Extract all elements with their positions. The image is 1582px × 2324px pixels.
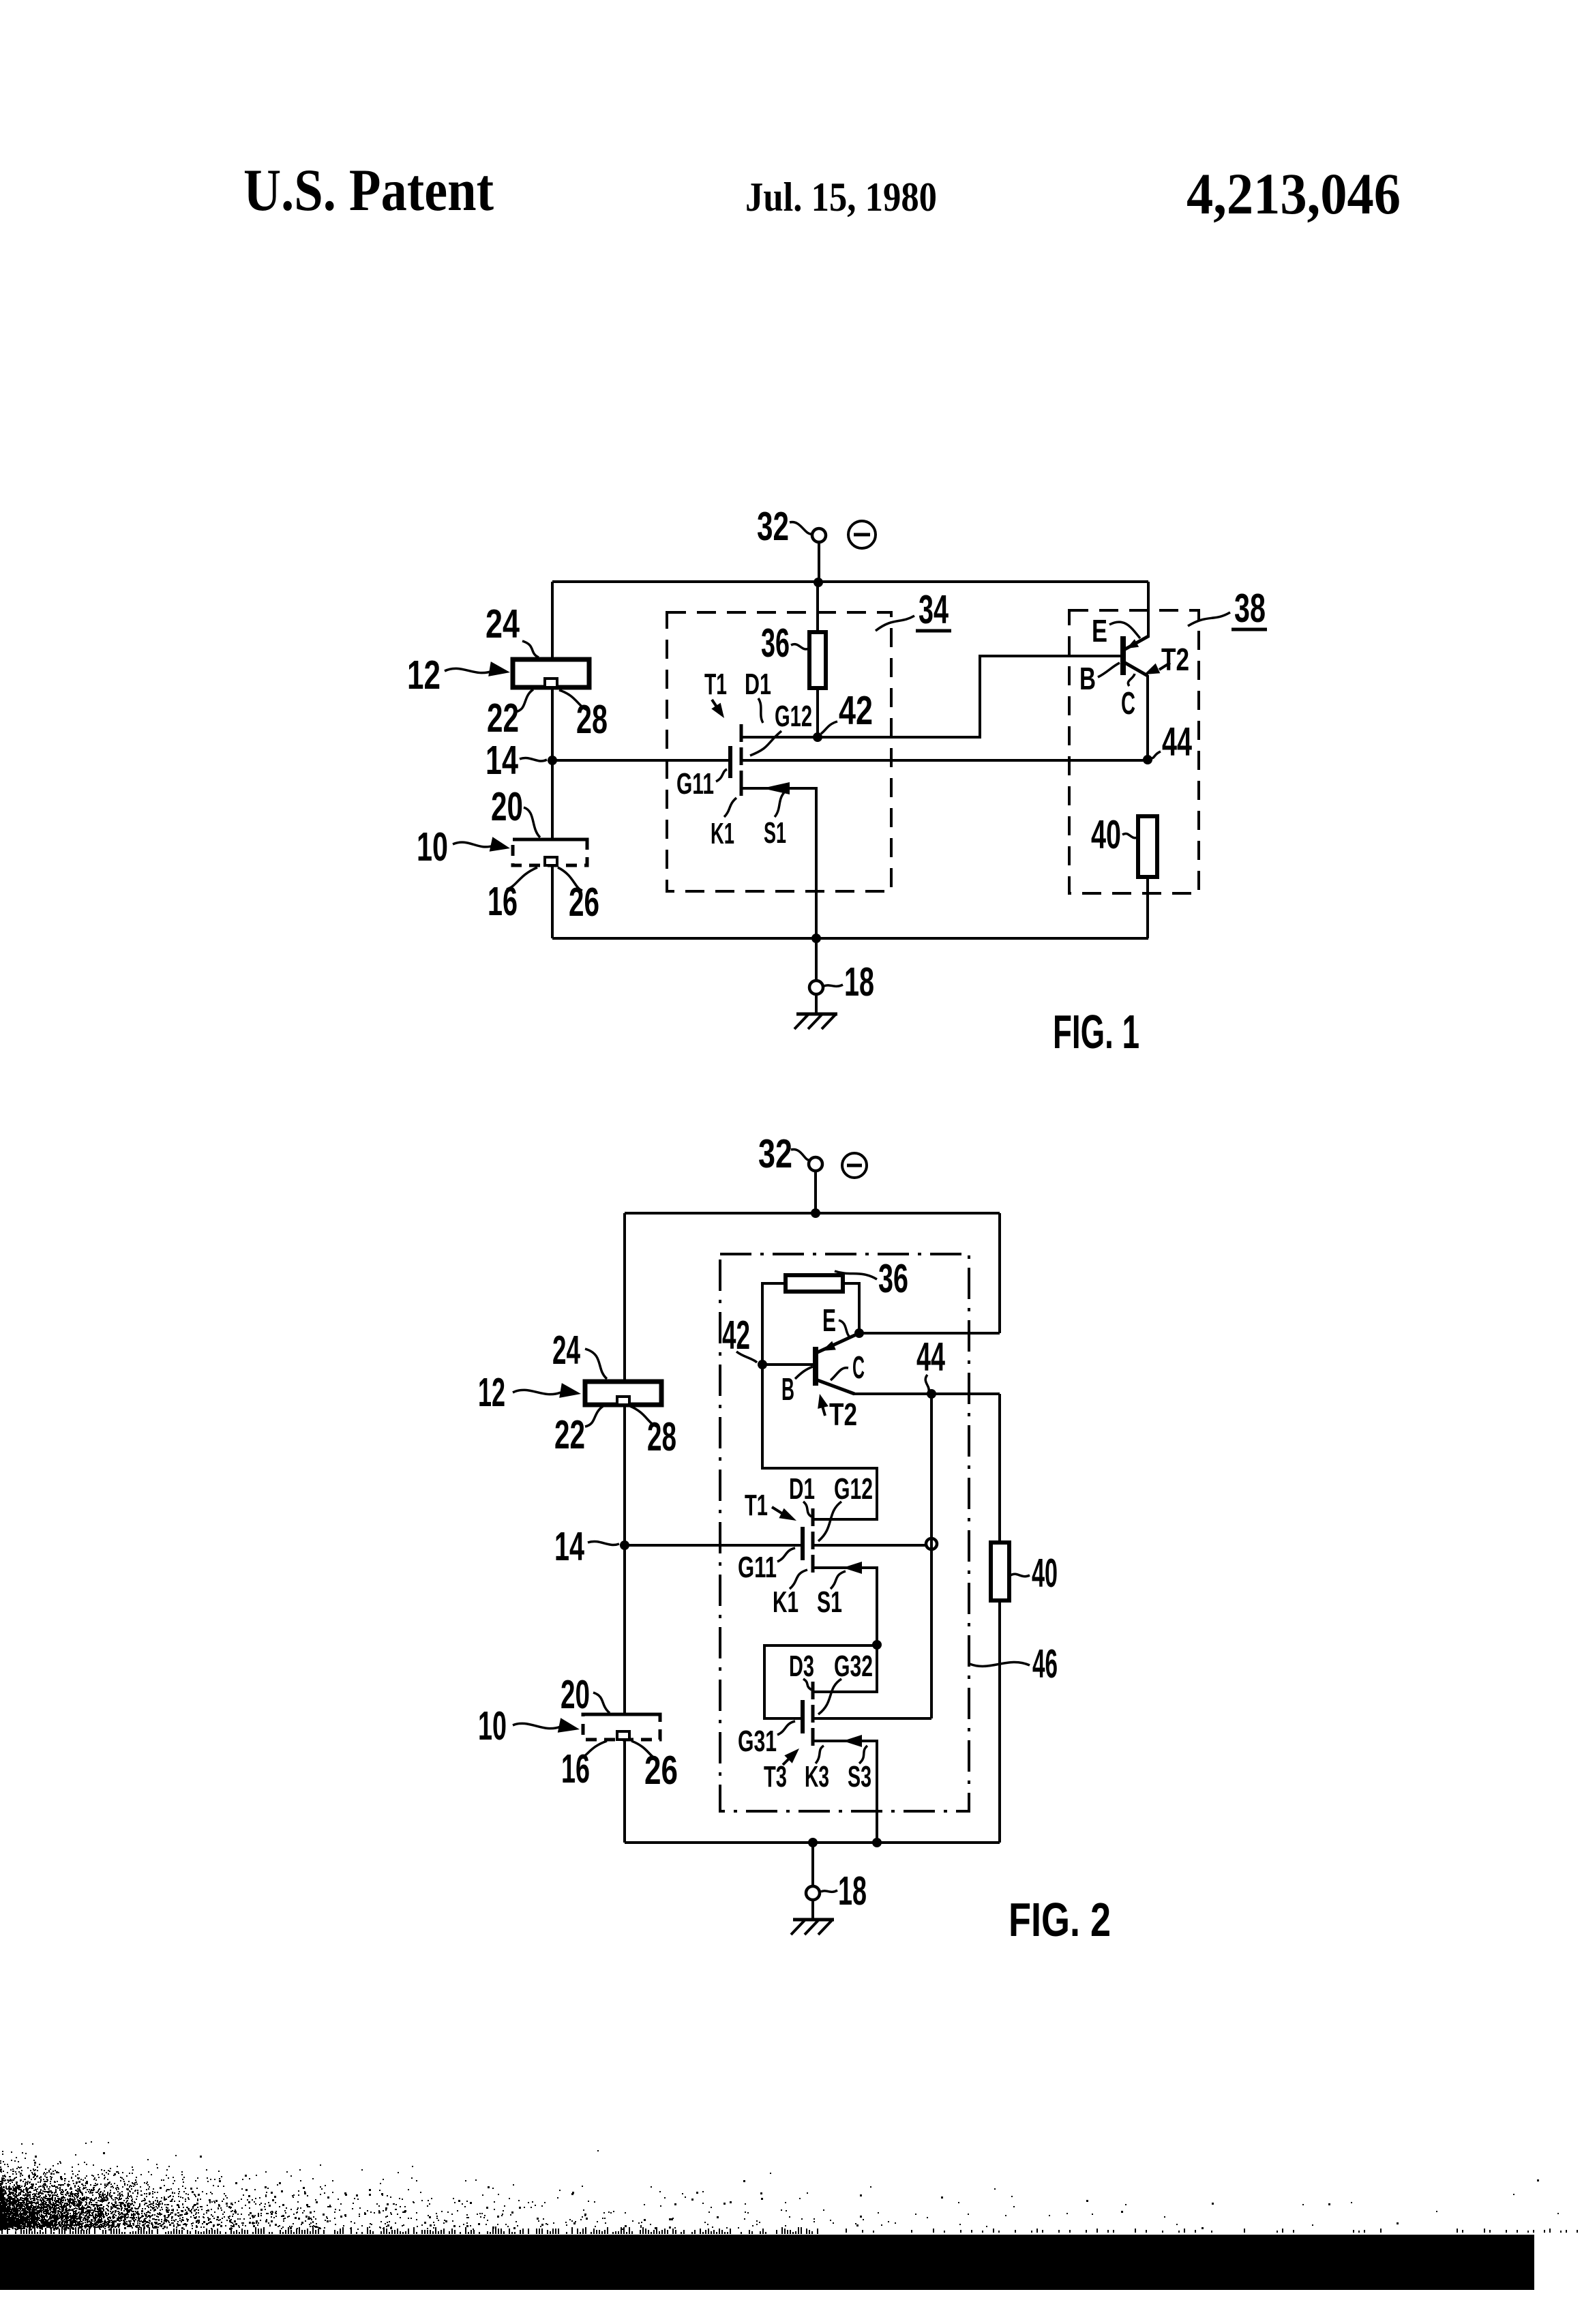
FIG.2 T3 pointer arrow [783,1758,790,1765]
FIG.2 wire 14 [625,1544,801,1547]
FIG.2 transistor T3 gate bar G31 [801,1700,805,1733]
FIG.1 ground symbol [815,994,818,1014]
FIG.1 lead-line for G12 [750,731,781,756]
FIG.1 T1 channel segment D-side [740,724,743,742]
FIG.2 lead-line for S1 [831,1571,846,1589]
FIG.1 T2 emitter arrow [1126,639,1139,649]
svg-text:24: 24 [486,601,520,646]
FIG.2 wire: node 44 down to G32 wire [930,1394,933,1718]
FIG.2 lead-line for B [795,1367,813,1379]
FIG.2 lead-line for 16 [578,1741,607,1759]
svg-text:18: 18 [844,959,874,1004]
svg-text:40: 40 [1032,1551,1058,1596]
FIG.2 lead-line for 42 [736,1352,757,1362]
FIG.2 T1 channel segment D-side [811,1508,815,1526]
FIG.1 lead-line for C [1128,674,1135,686]
FIG.1 wire: right edge upper segment to emitter [1147,582,1150,638]
FIG.2 wire: resistor 40 to bottom rail [998,1600,1001,1843]
FIG.2 wire: resistor 36 right lead to emitter node [843,1283,859,1333]
FIG.2 lead-line for C [831,1368,848,1380]
FIG.2 lead-line for 18 [821,1890,837,1892]
FIG.2 T2 emitter lead [818,1333,859,1352]
svg-text:20: 20 [561,1672,590,1717]
FIG.1 lead-line for 16 [507,867,537,889]
FIG.2 wire: outer left edge [623,1213,626,1843]
svg-text:24: 24 [552,1328,580,1373]
FIG.1 lead-line for 38 [1188,612,1230,626]
FIG.1 T1 pointer arrow [712,700,720,712]
svg-text:40: 40 [1091,812,1121,857]
svg-text:4,213,046: 4,213,046 [1186,161,1401,226]
FIG.2 lead-line for 46 [970,1662,1030,1666]
svg-text:T1: T1 [745,1489,768,1522]
FIG.2 S1 substrate arrow [843,1562,862,1574]
FIG.1 lead-line for 28 [559,690,589,711]
svg-text:12: 12 [407,653,441,698]
FIG.1 pointer arrow 12 [445,668,492,672]
svg-text:Jul. 15, 1980: Jul. 15, 1980 [745,175,937,220]
FIG.2 pointer arrow 10 [513,1723,561,1728]
FIG.2 photocell 12 box [585,1382,661,1405]
svg-text:K1: K1 [711,817,734,850]
FIG.1 lead-line for 42 [821,721,837,734]
FIG.2 wire: outer bottom edge [625,1841,1000,1844]
FIG.2 wire: G12 to vertical [814,1544,931,1547]
svg-text:44: 44 [1162,719,1192,764]
FIG.2 node dot bottom rail right [872,1838,882,1847]
FIG.1 T2 emitter lead [1125,636,1148,649]
FIG.2 T1 channel segment S-side [811,1555,815,1573]
FIG.1 dashed box 38 [1069,610,1199,893]
FIG.2 lead-line for 20 [593,1693,610,1713]
svg-text:14: 14 [486,738,518,783]
svg-text:42: 42 [839,688,873,733]
FIG.2 T1 channel segment middle [811,1532,815,1549]
FIG.1 T2 base wire [980,655,1120,657]
FIG.2 resistor 40 [991,1543,1009,1600]
FIG.2 T2 base wire [762,1363,813,1366]
svg-text:26: 26 [569,880,599,925]
FIG.1 node dot bottom rail [811,934,821,943]
FIG.2 T3 channel segment S-side [811,1728,815,1746]
FIG.2 lead-line for 26 [631,1741,657,1759]
svg-text:36: 36 [878,1256,908,1301]
FIG.1 lead-line for K1 [724,798,736,817]
svg-text:44: 44 [916,1335,945,1380]
FIG.1 dashed box 34 [667,612,891,891]
FIG.1 lead-line for 14 [520,758,547,761]
FIG.1 minus supply symbol [848,521,876,548]
FIG.2 terminal 32 circle [809,1157,822,1171]
FIG.1 lead-line for G11 [716,769,727,781]
svg-text:28: 28 [647,1414,676,1459]
svg-text:42: 42 [722,1313,750,1358]
FIG.2 wire: right edge to resistor 40 [998,1394,1001,1543]
black scan bar [0,2235,1534,2290]
svg-text:D1: D1 [745,668,771,701]
FIG.1 wire: rail to resistor 36 [816,582,819,634]
svg-text:34: 34 [919,587,949,632]
svg-text:G31: G31 [738,1725,777,1758]
FIG.1 S1 substrate arrow [762,782,790,794]
FIG.1 wire: D1 drain to node 42 and to T2 base [741,656,1120,737]
FIG.2 lead-line for K3 [816,1746,824,1763]
FIG.2 lead-line for 44 [925,1375,929,1391]
FIG.2 T1 pointer arrow [772,1507,783,1514]
FIG.1 node 42 dot [813,732,822,742]
FIG.2 photocell 12 contact 28 [617,1397,629,1405]
FIG.2 wire: emitter node to right edge [859,1332,1000,1335]
FIG.1 lead-line for 36 [791,644,809,649]
FIG.2 photocell 10 dashed box [583,1714,660,1740]
FIG.2 wire: G32 to vertical [814,1717,931,1720]
FIG.2 wire: D3 wire to junction [814,1646,877,1692]
svg-text:G11: G11 [738,1551,777,1584]
FIG.2 lead-line for K1 [790,1570,807,1589]
svg-text:G32: G32 [834,1650,873,1683]
svg-text:T1: T1 [704,668,727,701]
svg-text:18: 18 [838,1868,867,1913]
svg-text:C: C [1121,685,1135,721]
svg-text:36: 36 [761,621,790,666]
FIG.2 photocell 10 contact 26 [617,1731,629,1740]
FIG.1 node 14 dot [548,756,557,765]
FIG.1 node dot at top rail [814,578,823,587]
FIG.2 wire: resistor 36 left lead to node 42 [762,1283,786,1365]
FIG.1 photocell 12 contact 28 [545,679,557,687]
FIG.2 lead-line for D1 [803,1502,811,1517]
FIG.1 photocell 12 box [513,659,589,687]
FIG.1 lead-line for 20 [524,807,540,837]
svg-text:32: 32 [758,1131,792,1176]
FIG.2 lead-line for G32 [818,1679,841,1714]
FIG.2 S3 substrate arrow [843,1735,862,1747]
FIG.2 lead-line for 22 [585,1405,604,1427]
scan noise band [0,2141,1578,2234]
FIG.1 wire: resistor 40 to bottom rail [1146,877,1149,938]
FIG.2 wire: node 42 down to D1 loop [762,1365,877,1519]
FIG.2 wire: collector to right edge [854,1392,1000,1395]
FIG.1 lead-line for E [1109,622,1140,638]
FIG.2 lead-line for 40 [1011,1574,1030,1576]
FIG.1 lead-line for 34 [876,616,914,631]
svg-text:10: 10 [417,824,448,869]
FIG.1 transistor T2 base bar [1120,636,1126,675]
FIG.1 ground terminal circle 18 [815,938,818,981]
svg-text:10: 10 [478,1703,507,1748]
FIG.2 wire: right edge upper segment [998,1213,1001,1333]
FIG.1 wire: outer loop top edge [552,580,1148,583]
FIG.1 resistor 40 [1138,816,1157,877]
FIG.1 lead-line for 40 [1122,833,1137,837]
FIG.2 node dot S1/G31 junction [872,1640,882,1650]
FIG.2 wire: S3 source lead [814,1741,877,1843]
FIG.2 wire: S1 source lead [814,1568,877,1644]
FIG.2 lead-line for G12 [818,1502,841,1541]
FIG.1 wire 14 left segment [552,759,728,762]
FIG.1 photocell 10 solid top edge [513,838,587,841]
FIG.1 wire: outer loop left edge [551,582,554,938]
FIG.2 T2 emitter arrow [822,1341,836,1351]
svg-text:T2: T2 [829,1397,857,1432]
svg-text:D1: D1 [789,1472,815,1506]
svg-text:S1: S1 [764,816,786,850]
FIG.2 lead-line for 28 [630,1406,657,1427]
FIG.2 emitter node dot [854,1328,864,1338]
FIG.1 lead-line for 18 [824,985,843,986]
FIG.1 photocell 10 dashed box [513,839,587,865]
svg-text:K3: K3 [805,1760,829,1793]
FIG.2 ring node at wire 14 junction [926,1538,937,1549]
svg-text:E: E [1092,613,1107,649]
FIG.1 wire: outer loop bottom edge [552,937,1148,940]
FIG.2 lead-line for 36 [835,1271,877,1279]
FIG.2 lead-line for 24 [585,1349,607,1379]
svg-text:38: 38 [1234,586,1266,631]
FIG.2 T2 pointer arrow [822,1406,825,1416]
FIG.1 lead-line for 26 [558,867,582,891]
FIG.2 lead-line for E [839,1320,851,1338]
svg-text:C: C [852,1350,865,1385]
FIG.2 transistor T1 gate bar G11 [801,1527,805,1560]
FIG.2 minus supply symbol [842,1153,867,1178]
FIG.2 lead-line for D3 [803,1679,811,1690]
svg-text:28: 28 [576,697,608,742]
svg-text:G11: G11 [676,767,714,801]
FIG.2 T3 channel segment D-side [811,1682,815,1699]
FIG.1 photocell 10 contact 26 [545,857,557,865]
FIG.2 node dot top rail [811,1208,820,1218]
FIG.1 terminal 32 lead wire [818,541,820,583]
svg-text:32: 32 [757,504,789,549]
FIG.1 wire: resistor 36 to node 42 [816,688,819,737]
svg-text:T2: T2 [1161,642,1189,677]
FIG.1 T2 pointer arrow [1159,663,1170,670]
FIG.2 pointer arrow 12 [513,1390,561,1394]
FIG.2 terminal 32 lead wire [814,1170,817,1215]
svg-text:B: B [1079,661,1096,696]
FIG.1 T1 channel segment S-side [740,771,743,796]
svg-text:S1: S1 [817,1585,842,1619]
FIG.2 lead-line for S3 [859,1746,867,1763]
FIG.2 node 42 dot [758,1360,767,1369]
FIG.1 T1 channel segment middle [740,747,743,765]
svg-text:20: 20 [491,784,523,829]
FIG.2 lead-line for G11 [777,1548,795,1562]
FIG.2 node 14 dot [620,1540,629,1550]
svg-text:G12: G12 [775,700,812,733]
FIG.1 lead-line for 22 [516,689,533,712]
FIG.2 transistor T2 base bar [813,1347,818,1386]
svg-text:B: B [781,1371,794,1407]
FIG.2 T2 collector lead [818,1380,854,1394]
FIG.1 resistor 36 [809,632,826,688]
FIG.1 lead-line for 44 [1151,751,1161,758]
svg-text:FIG. 2: FIG. 2 [1009,1893,1111,1946]
FIG.1 terminal 32 circle [812,528,826,542]
FIG.2 lead-line for 32 [791,1150,810,1161]
FIG.1 lead-line for S1 [775,792,784,817]
FIG.2 ground symbol [811,1900,814,1920]
svg-text:D3: D3 [789,1650,814,1683]
FIG.1 wire: collector to node 44 [1146,675,1149,760]
FIG.1 node 44 dot [1143,755,1152,764]
FIG.2 lead-line for 14 [588,1541,619,1545]
svg-text:E: E [822,1302,836,1338]
svg-text:U.S. Patent: U.S. Patent [243,158,494,224]
FIG.1 wire: S1 source lead [743,788,816,938]
FIG.2 lead-line for G31 [777,1721,795,1735]
svg-text:22: 22 [487,696,519,741]
FIG.1 T2 collector lead [1125,663,1148,676]
svg-text:K1: K1 [773,1585,799,1619]
FIG.2 node 44 dot [927,1389,936,1399]
FIG.1 lead-line for B [1098,663,1120,677]
FIG.1 lead-line for 24 [522,641,539,657]
FIG.2 ground terminal circle 18 [811,1843,814,1886]
svg-text:S3: S3 [848,1760,871,1793]
FIG.1 lead-line for 32 [790,522,813,535]
FIG.1 lead-line for D1 [758,698,763,723]
svg-text:FIG. 1: FIG. 1 [1053,1005,1139,1058]
svg-text:16: 16 [561,1746,590,1791]
FIG.1 wire: G12 to node 44 [743,759,1148,762]
FIG.2 photocell 10 solid top edge [583,1713,660,1716]
FIG.2 node dot bottom rail left [808,1838,818,1847]
FIG.2 dash-dot box 46 [720,1254,969,1811]
FIG.2 wire: junction to G31 loop [764,1645,877,1718]
svg-text:46: 46 [1032,1641,1058,1686]
svg-text:22: 22 [554,1412,585,1457]
FIG.1 pointer arrow 10 [453,842,494,847]
FIG.2 T3 channel segment middle [811,1705,815,1723]
FIG.2 resistor 36 [786,1275,843,1292]
FIG.2 wire: outer top edge [625,1212,1000,1215]
FIG.1 transistor T1 gate bar G11 [728,746,732,778]
svg-text:14: 14 [554,1524,584,1569]
svg-text:G12: G12 [834,1472,873,1506]
svg-text:12: 12 [478,1370,505,1415]
